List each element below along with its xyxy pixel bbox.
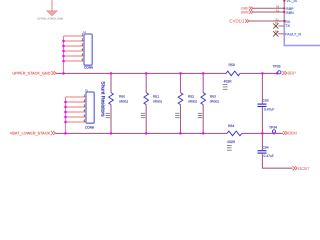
resistor R61 [141, 72, 163, 134]
node BBN left [241, 10, 253, 14]
ground [37, 0, 63, 21]
svg-text:OCB7: OCB7 [298, 166, 310, 171]
junction J5 pins [64, 101, 67, 135]
wire CVDD1 / RX [249, 20, 284, 22]
svg-text:TX: TX [285, 24, 290, 28]
wire J5 pin2 [66, 101, 87, 103]
testpoint TP34 [269, 125, 277, 134]
wire J5 pin4 [66, 111, 87, 113]
wire top rail right [240, 72, 277, 74]
node UPPER_STACK_GND [12, 71, 56, 76]
svg-text:R60: R60 [119, 95, 125, 99]
svg-text:0R002: 0R002 [210, 99, 219, 103]
wire BBN [253, 11, 284, 13]
svg-text:R59: R59 [229, 63, 235, 67]
IC U1 battery monitor (partial) [284, 0, 320, 46]
svg-text:402R: 402R [227, 140, 236, 144]
svg-text:R63: R63 [210, 95, 216, 99]
wire J4 pin6 [64, 60, 85, 62]
wire top rail [56, 72, 226, 74]
connector J5 [84, 88, 95, 129]
wire bottom rail [56, 132, 228, 134]
svg-text:54: 54 [276, 6, 279, 9]
svg-text:CON6: CON6 [85, 125, 94, 129]
wire J4 pin3 [64, 45, 85, 47]
wire bottom out [262, 167, 293, 169]
wire J5 pin5 [66, 116, 87, 118]
node BBP right [282, 71, 296, 76]
pin FAULT_N no-connect [273, 31, 284, 36]
svg-text:0.47uF: 0.47uF [264, 107, 274, 111]
svg-text:BBN: BBN [241, 10, 249, 14]
svg-text:TP34: TP34 [269, 125, 277, 129]
svg-text:Shunt Resistors: Shunt Resistors [100, 81, 106, 117]
resistor R59 [223, 63, 240, 90]
svg-text:R61: R61 [153, 95, 159, 99]
capacitor C93 [258, 72, 275, 133]
svg-text:CVDD1: CVDD1 [229, 18, 244, 23]
capacitor C94 [258, 132, 274, 168]
svg-text:TP33: TP33 [272, 65, 280, 69]
resistor R63 [198, 72, 219, 134]
svg-text:CON6: CON6 [84, 66, 93, 70]
pin names U1 [285, 0, 301, 36]
svg-text:0R002: 0R002 [153, 99, 162, 103]
svg-text:62: 62 [275, 30, 278, 33]
svg-text:VC_IS: VC_IS [287, 0, 298, 3]
node VBAT_LOWER_STACK [10, 131, 56, 136]
wire J4 bus vertical [63, 36, 65, 73]
pin dots U1 [283, 0, 285, 22]
wire J5 pin3 [66, 106, 87, 108]
node BBN right [283, 131, 297, 136]
wire J5 bus vertical [65, 97, 67, 133]
wire J4 pin5 [64, 55, 85, 57]
svg-text:VBAT_LOWER_STACK: VBAT_LOWER_STACK [10, 132, 51, 136]
pin numbers U1 [275, 6, 279, 33]
svg-text:C93: C93 [263, 98, 269, 102]
svg-text:C94: C94 [263, 145, 269, 149]
svg-text:61: 61 [276, 9, 279, 12]
wire bottom rail right [242, 132, 283, 134]
svg-text:UPPER_STACK_GND: UPPER_STACK_GND [37, 18, 63, 21]
svg-text:FAULT_N: FAULT_N [285, 32, 301, 36]
node OCB7 [293, 166, 310, 171]
wire J5 pin6 [66, 121, 87, 123]
resistor R64 [227, 124, 242, 150]
node CVDD1 [229, 18, 249, 23]
svg-text:402R: 402R [224, 79, 233, 83]
junction J4 pins [62, 40, 65, 75]
wire J4 pin4 [64, 50, 85, 52]
connector J4 [82, 30, 93, 69]
svg-text:BBN: BBN [286, 11, 294, 15]
svg-text:52: 52 [276, 18, 279, 21]
wire J4 pin2 [64, 40, 85, 42]
wire BBP [253, 7, 284, 9]
svg-text:J5: J5 [85, 88, 89, 92]
svg-text:BBN: BBN [288, 131, 297, 136]
wire J4 pin1 [64, 35, 85, 37]
svg-text:UPPER_STACK_GND: UPPER_STACK_GND [12, 72, 50, 76]
svg-text:BBP: BBP [288, 71, 297, 76]
pin TX no-connect [273, 23, 284, 28]
testpoint TP33 [272, 65, 280, 75]
svg-text:R62: R62 [188, 95, 194, 99]
wire J5 pin1 [66, 96, 87, 98]
resistor R62 [175, 72, 197, 134]
svg-text:53: 53 [275, 22, 278, 25]
svg-text:0.47uF: 0.47uF [264, 154, 274, 158]
svg-text:0R002: 0R002 [188, 99, 197, 103]
resistor R60 [106, 72, 129, 134]
node BBP left [241, 7, 253, 11]
svg-text:R64: R64 [228, 124, 234, 128]
svg-text:0R002: 0R002 [119, 99, 128, 103]
